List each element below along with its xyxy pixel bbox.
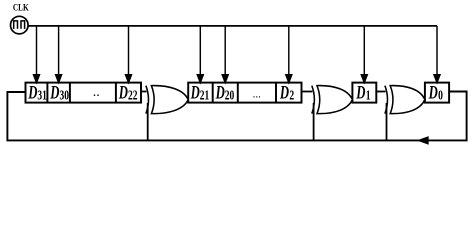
svg-text:...: ... (253, 89, 262, 101)
svg-text:D: D (356, 83, 366, 103)
svg-text:D: D (28, 83, 38, 103)
svg-text:D: D (279, 83, 289, 103)
svg-text:D: D (428, 83, 438, 103)
svg-text:1: 1 (366, 89, 371, 104)
svg-text:D: D (215, 83, 225, 103)
svg-text:20: 20 (225, 89, 235, 104)
svg-text:21: 21 (200, 89, 210, 104)
svg-text:CLK: CLK (13, 4, 29, 14)
svg-text:D: D (118, 83, 128, 103)
svg-text:..: .. (93, 85, 100, 100)
svg-text:22: 22 (128, 89, 138, 104)
svg-text:2: 2 (289, 89, 294, 104)
svg-text:D: D (190, 83, 200, 103)
svg-text:30: 30 (60, 89, 70, 104)
svg-text:0: 0 (438, 89, 443, 104)
svg-text:D: D (50, 83, 60, 103)
svg-text:31: 31 (37, 89, 47, 104)
